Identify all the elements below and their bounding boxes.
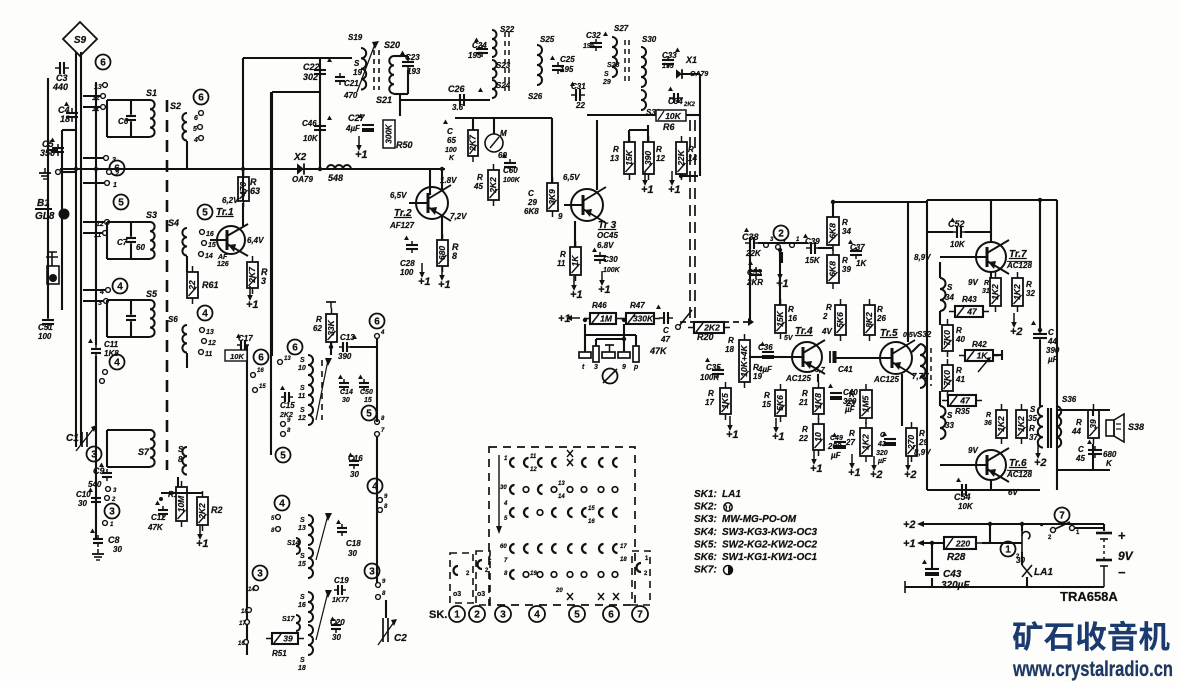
polarity mark C34 — [668, 87, 673, 92]
contact s16 8 — [376, 595, 381, 600]
resistor R45 — [488, 164, 499, 206]
wire y100 c26 — [455, 99, 490, 101]
contact sk2 — [477, 556, 492, 598]
capacitor C9 — [102, 469, 112, 481]
capacitor C3 — [55, 62, 69, 74]
svg-text:Tr.6: Tr.6 — [1009, 458, 1027, 469]
svg-text:36: 36 — [984, 420, 992, 427]
svg-text:18: 18 — [241, 609, 248, 615]
power +2 rail — [903, 519, 916, 531]
node 3 l — [253, 566, 268, 581]
line B1 — [35, 208, 52, 210]
svg-text:2K7: 2K7 — [247, 266, 257, 284]
switch matrix box sk1 — [450, 553, 473, 603]
node 5 c50 — [362, 406, 377, 421]
core s32 — [930, 348, 932, 386]
wire c39 r39 — [818, 247, 833, 249]
svg-text:100K: 100K — [603, 267, 621, 274]
wire r13 top — [628, 130, 630, 142]
svg-text:SK3:: SK3: — [694, 514, 717, 525]
contact s16 18 — [247, 608, 252, 613]
svg-text:10: 10 — [813, 432, 823, 442]
wire c38 c39 — [758, 242, 808, 244]
svg-text:35: 35 — [1028, 414, 1037, 423]
polarity mark C30 — [592, 248, 597, 253]
svg-text:SW3-KG3-KW3-OC3: SW3-KG3-KW3-OC3 — [722, 527, 817, 538]
wire m v — [493, 118, 495, 134]
wire c23 down — [407, 56, 409, 60]
svg-text:6: 6 — [100, 58, 106, 69]
wire S3 top — [107, 221, 150, 223]
svg-text:+: + — [1118, 528, 1126, 543]
svg-text:S6: S6 — [168, 315, 178, 324]
junction x2 76 — [74, 167, 78, 171]
svg-text:4: 4 — [193, 137, 198, 144]
capacitor C51 — [42, 315, 54, 329]
svg-text:320µF: 320µF — [941, 580, 970, 591]
contact s16 16 — [244, 640, 249, 645]
wire left stub1 — [48, 149, 58, 151]
wire s34 top — [939, 262, 941, 278]
svg-text:4: 4 — [534, 610, 540, 621]
arrow S16 — [316, 592, 328, 640]
contact c10a — [106, 487, 111, 492]
svg-text:3: 3 — [261, 276, 266, 286]
capacitor C36 — [762, 352, 774, 359]
coil S5 — [150, 300, 155, 337]
svg-text:15K: 15K — [624, 149, 634, 165]
resistor R29 — [906, 422, 917, 462]
svg-text:C: C — [1078, 445, 1084, 454]
svg-text:6,5V: 6,5V — [390, 191, 407, 200]
svg-text:R35: R35 — [955, 407, 970, 416]
contact l4a — [103, 370, 108, 375]
node 3 r — [365, 564, 380, 579]
svg-text:7,2V: 7,2V — [450, 212, 467, 221]
svg-text:34: 34 — [945, 293, 954, 302]
svg-text:µF: µF — [830, 451, 842, 460]
wire tr5 coil — [912, 344, 920, 352]
svg-text:C18: C18 — [346, 539, 361, 548]
arrow +2 rail — [920, 523, 930, 525]
polarity mark C23 — [400, 51, 405, 56]
node 6 c17 — [254, 350, 269, 365]
junction R1 — [159, 497, 163, 501]
transistor Tr.4 — [785, 340, 825, 374]
svg-text:10K: 10K — [950, 240, 966, 249]
tone resistor p — [633, 346, 639, 362]
polarity mark C43 — [922, 560, 927, 565]
svg-text:6: 6 — [292, 343, 298, 354]
coil S33 — [940, 406, 946, 439]
resistor R41 — [942, 359, 953, 397]
wire out top — [927, 199, 1057, 201]
junction c44 — [1038, 328, 1042, 332]
svg-text:22K: 22K — [745, 249, 762, 258]
resistor R1 — [176, 481, 187, 527]
svg-text:C1: C1 — [66, 433, 79, 444]
contact mid 7 — [375, 432, 380, 437]
wire C6 v2 — [130, 122, 132, 137]
svg-text:4: 4 — [117, 282, 123, 293]
svg-text:+1: +1 — [438, 279, 451, 291]
transistor Tr.3 — [564, 187, 606, 223]
svg-text:C: C — [528, 189, 534, 198]
svg-text:+1: +1 — [570, 289, 583, 301]
svg-text:C9: C9 — [93, 466, 105, 476]
wire tr6 collector down — [990, 480, 992, 490]
polarity mark C18 — [336, 520, 341, 525]
svg-text:S20: S20 — [384, 40, 400, 50]
svg-text:5,7: 5,7 — [815, 367, 826, 374]
svg-text:22K: 22K — [676, 149, 686, 166]
wire x1 v — [699, 74, 701, 176]
svg-text:S: S — [300, 357, 305, 364]
capacitor C25 — [552, 62, 564, 74]
wire S7 top — [107, 429, 150, 431]
svg-text:+1: +1 — [355, 149, 368, 161]
arrow +1 rail — [920, 542, 930, 544]
capacitor C23 — [402, 58, 414, 70]
svg-text:R: R — [802, 425, 808, 434]
resistor R8 — [437, 234, 448, 272]
svg-text:AC125: AC125 — [785, 374, 811, 383]
wire r28 up — [989, 524, 991, 543]
power +1 r8 — [438, 266, 451, 291]
wire sw2 down — [781, 252, 783, 263]
svg-text:C14: C14 — [340, 389, 353, 396]
svg-text:5: 5 — [574, 610, 580, 621]
junction det 750 — [748, 320, 752, 324]
wire r13 h — [629, 129, 648, 131]
svg-text:R: R — [849, 429, 855, 438]
polarity mark C45 — [1087, 440, 1092, 445]
svg-text:R47: R47 — [630, 301, 645, 310]
dash det — [713, 321, 750, 323]
svg-text:100: 100 — [38, 332, 52, 341]
diode X2 — [297, 163, 304, 174]
contact 3 — [104, 156, 109, 161]
coil S14 — [296, 538, 300, 554]
svg-text:30: 30 — [342, 397, 350, 404]
svg-text:12: 12 — [208, 340, 216, 347]
svg-text:1: 1 — [1005, 545, 1011, 556]
capacitor C31 — [571, 89, 585, 101]
core S10 — [321, 360, 323, 420]
resistor R22 — [813, 418, 824, 456]
capacitor C4 — [66, 108, 78, 122]
contact S2 6 — [199, 111, 204, 116]
wire S3 left — [106, 222, 108, 259]
svg-text:15: 15 — [762, 400, 771, 409]
svg-text:32: 32 — [1026, 289, 1035, 298]
svg-text:22: 22 — [575, 101, 585, 110]
wire s20 c23 top — [394, 55, 408, 57]
svg-text:100: 100 — [400, 268, 414, 277]
svg-text:63: 63 — [250, 186, 260, 196]
svg-text:C51: C51 — [38, 323, 53, 332]
contact s10 16 — [251, 373, 256, 378]
svg-text:GL8: GL8 — [35, 211, 55, 222]
capacitor C14 — [339, 379, 349, 391]
core S27 — [624, 40, 626, 85]
wire s33 top — [939, 391, 941, 406]
svg-text:12: 12 — [530, 467, 537, 473]
svg-text:200: 200 — [827, 442, 842, 451]
svg-text:C: C — [1048, 328, 1054, 337]
matrix x bot1 — [567, 593, 619, 600]
svg-text:10M: 10M — [176, 495, 186, 512]
svg-text:R: R — [877, 305, 883, 314]
svg-text:C54: C54 — [954, 492, 971, 502]
wire tr5 collector rail — [907, 202, 909, 342]
polarity mark C5 — [50, 138, 55, 143]
polarity mark C32 — [603, 32, 608, 37]
contact S2 5 — [198, 125, 203, 130]
svg-text:2: 2 — [474, 610, 480, 621]
capacitor C39 — [806, 242, 820, 254]
wire tr4 emitter down — [817, 374, 819, 382]
svg-text:R: R — [1076, 418, 1082, 427]
capacitor C21 — [335, 73, 345, 85]
tone resistor t — [579, 352, 591, 358]
svg-text:390: 390 — [1046, 346, 1060, 355]
polarity mark C24 — [474, 38, 479, 43]
svg-text:R28: R28 — [947, 552, 966, 563]
wire x1 out — [682, 73, 700, 75]
contact s10 9 — [281, 422, 286, 427]
resistor 10K box — [225, 350, 247, 361]
wire tr7 collector — [990, 200, 992, 242]
junction det — [748, 318, 754, 326]
svg-text:320: 320 — [876, 450, 888, 457]
coil S36w — [1056, 406, 1061, 448]
svg-text:+1: +1 — [726, 429, 739, 441]
wire r16 up — [779, 250, 781, 305]
capacitor C35 — [712, 366, 724, 378]
svg-text:1M5: 1M5 — [861, 395, 871, 412]
svg-text:4: 4 — [114, 358, 120, 369]
svg-text:+2: +2 — [1010, 326, 1023, 338]
svg-text:37: 37 — [1029, 433, 1038, 442]
svg-text:220: 220 — [955, 539, 970, 549]
svg-text:R: R — [956, 366, 962, 375]
wire tr5 emitter down — [901, 374, 903, 426]
svg-text:SK7:: SK7: — [694, 565, 717, 576]
polarity mark C17 — [236, 334, 241, 339]
svg-text:30: 30 — [500, 485, 507, 491]
svg-text:9V: 9V — [968, 446, 978, 455]
svg-text:7: 7 — [637, 610, 643, 621]
coil S11 — [308, 385, 313, 405]
svg-text:C25: C25 — [560, 55, 575, 64]
coil S7 — [150, 430, 155, 467]
polarity mark C65 — [443, 120, 448, 125]
wire v 272 — [271, 92, 273, 356]
polarity mark C20 — [330, 617, 335, 622]
contact 12 — [101, 94, 106, 99]
svg-text:S19: S19 — [348, 33, 363, 42]
wire r6 line — [587, 114, 656, 116]
svg-text:302: 302 — [303, 72, 318, 82]
svg-text:S: S — [300, 594, 305, 601]
contact s16 9 — [376, 583, 381, 588]
contact s13 8b — [276, 527, 281, 532]
wire C7 v1 — [130, 222, 132, 236]
resistor R17 — [720, 382, 731, 420]
power +1 tr1 — [246, 286, 259, 311]
svg-text:195: 195 — [468, 51, 482, 60]
svg-text:60: 60 — [136, 243, 145, 252]
svg-text:2: 2 — [778, 229, 784, 240]
svg-text:1: 1 — [454, 610, 460, 621]
svg-text:1K2: 1K2 — [861, 434, 871, 450]
core s35 — [1047, 408, 1049, 448]
svg-text:+1: +1 — [641, 184, 654, 196]
coil S35 — [1038, 406, 1043, 448]
svg-text:C11: C11 — [104, 340, 119, 349]
node SK1 — [449, 606, 465, 622]
svg-text:C33: C33 — [662, 51, 677, 60]
svg-text:8,9V: 8,9V — [914, 253, 931, 262]
wire stub y233 — [83, 232, 102, 234]
svg-text:C17: C17 — [238, 334, 253, 343]
svg-text:3: 3 — [109, 507, 115, 518]
svg-text:C: C — [447, 127, 453, 136]
svg-text:29: 29 — [527, 198, 537, 207]
svg-text:C38: C38 — [742, 232, 759, 242]
svg-text:13: 13 — [558, 481, 565, 487]
svg-text:30: 30 — [113, 545, 122, 554]
wire x2 line2 — [304, 168, 445, 170]
svg-text:100K: 100K — [700, 373, 720, 382]
contact l4b — [100, 379, 105, 384]
svg-text:11: 11 — [298, 393, 305, 400]
contact S4 16 — [200, 230, 205, 235]
svg-text:7K0: 7K0 — [942, 330, 952, 346]
svg-text:S36: S36 — [1062, 395, 1077, 404]
svg-text:5: 5 — [202, 208, 208, 219]
svg-text:39: 39 — [283, 634, 293, 644]
svg-text:S: S — [300, 553, 305, 560]
svg-text:22: 22 — [798, 434, 808, 443]
junction r14 — [679, 174, 683, 178]
wire spk v — [1092, 410, 1094, 416]
wire r62 base — [330, 342, 332, 355]
svg-text:195: 195 — [583, 43, 595, 50]
contact s5 4 — [106, 288, 111, 293]
wire stub y301 — [83, 300, 103, 302]
svg-text:33: 33 — [945, 421, 954, 430]
svg-text:C50: C50 — [360, 389, 373, 396]
polarity mark C27 — [358, 114, 363, 119]
svg-text:C34: C34 — [668, 97, 683, 106]
svg-text:20: 20 — [555, 588, 563, 594]
svg-text:Tr.5: Tr.5 — [880, 328, 898, 339]
wire spk bot — [1057, 469, 1110, 471]
svg-text:OC45: OC45 — [597, 231, 618, 240]
switch matrix big dashed box — [489, 447, 635, 605]
svg-text:12: 12 — [298, 415, 306, 422]
svg-text:C60: C60 — [503, 166, 518, 175]
resistor R16 — [775, 299, 786, 339]
capacitor C37 — [850, 247, 862, 259]
resistor R14 — [676, 136, 687, 180]
capacitor C30 — [594, 252, 606, 264]
wire preamp rail — [832, 200, 834, 217]
shield dashed a — [689, 120, 691, 322]
contact s5 3 — [104, 299, 109, 304]
svg-text:SK2:: SK2: — [694, 502, 717, 513]
wire S3 bot — [107, 258, 150, 260]
wire sw v — [1103, 524, 1105, 531]
svg-text:6: 6 — [258, 353, 264, 364]
svg-text:Tr.4: Tr.4 — [795, 326, 813, 337]
svg-text:C2: C2 — [394, 633, 407, 644]
junction tone a — [583, 318, 587, 322]
svg-text:390: 390 — [338, 352, 352, 361]
wire s8 down — [177, 477, 179, 499]
polarity mark C22 — [327, 58, 332, 63]
svg-text:39: 39 — [1088, 419, 1098, 429]
antenna jack — [46, 252, 59, 284]
svg-text:26: 26 — [876, 314, 886, 323]
node SK4 — [529, 606, 545, 622]
capacitor C12 — [158, 506, 168, 518]
svg-text:18: 18 — [60, 114, 70, 124]
svg-text:18: 18 — [725, 345, 734, 354]
svg-text:C52: C52 — [948, 219, 965, 229]
svg-text:7: 7 — [1059, 511, 1065, 522]
power +1 r12 — [641, 171, 654, 196]
wire r42 tick — [1001, 350, 1003, 360]
contact s10 15 — [253, 388, 258, 393]
coil S12 — [308, 405, 313, 425]
svg-text:10K+4K: 10K+4K — [739, 344, 749, 376]
variable capacitor C1 — [76, 425, 97, 451]
junction tr2 e — [440, 167, 444, 171]
wire preamp top rail — [833, 201, 927, 203]
svg-text:R: R — [613, 145, 619, 154]
capacitor C32 — [590, 39, 602, 51]
svg-text:S: S — [300, 657, 305, 664]
wire S5 left — [106, 300, 108, 337]
capacitor C44 — [1033, 330, 1047, 342]
svg-text:5V: 5V — [784, 335, 794, 342]
contact sk1 — [453, 566, 470, 598]
volume switch — [676, 310, 692, 329]
wire left rail — [47, 78, 49, 300]
svg-text:Tr.7: Tr.7 — [1009, 249, 1027, 260]
power +1 r11 — [570, 276, 583, 301]
svg-text:R20: R20 — [697, 332, 714, 342]
svg-text:SK.: SK. — [429, 609, 447, 621]
svg-text:S: S — [947, 283, 953, 292]
resistor R11 — [570, 241, 581, 281]
capacitor C8 — [93, 535, 103, 547]
wire c43 dn — [931, 578, 933, 587]
wire r6 right — [686, 114, 700, 116]
wire r12 top — [647, 125, 649, 142]
svg-text:C41: C41 — [838, 365, 853, 374]
wire s6 stub — [186, 353, 188, 368]
node 1 pw — [1001, 542, 1016, 557]
capacitor C50 — [359, 379, 369, 391]
contact mid 8 — [375, 420, 380, 425]
svg-text:33K: 33K — [326, 319, 336, 335]
capacitor C53 — [750, 267, 762, 279]
contact s16 14 — [254, 586, 259, 591]
